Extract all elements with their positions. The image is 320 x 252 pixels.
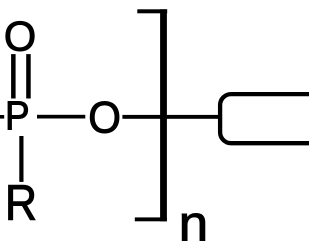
bond from P to left (cut off at image edge) <box>0 115 4 119</box>
polymer closing bracket ] vertical stroke <box>160 9 167 221</box>
svg-text:P: P <box>5 94 30 139</box>
polymer bracket top arm <box>137 9 167 13</box>
svg-text:O: O <box>88 93 121 142</box>
polymer bracket bottom arm <box>135 217 167 221</box>
rounded box: next repeat unit placeholder (cut off at right edge) <box>220 94 320 143</box>
svg-text:R: R <box>5 176 37 232</box>
bond O2 to next repeat unit (crosses bracket) <box>122 115 218 119</box>
svg-text:n: n <box>179 195 209 251</box>
double bond P=O (right line) <box>26 54 31 98</box>
double bond P=O (left line) <box>11 54 16 98</box>
bond P–R <box>19 136 23 182</box>
svg-text:O: O <box>4 12 36 59</box>
bond P–O2 <box>37 115 85 119</box>
